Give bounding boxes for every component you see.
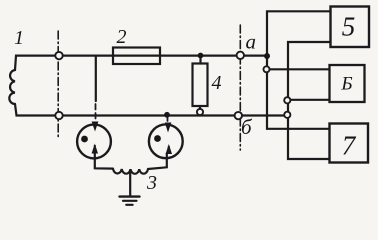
svg-text:3: 3 <box>146 172 157 194</box>
svg-text:а: а <box>246 30 257 54</box>
svg-text:2: 2 <box>117 26 127 48</box>
svg-text:4: 4 <box>212 72 222 94</box>
svg-text:Б: Б <box>340 74 352 95</box>
svg-text:5: 5 <box>342 12 356 42</box>
svg-text:7: 7 <box>342 131 357 161</box>
svg-text:1: 1 <box>14 27 24 49</box>
svg-text:б: б <box>241 115 253 139</box>
